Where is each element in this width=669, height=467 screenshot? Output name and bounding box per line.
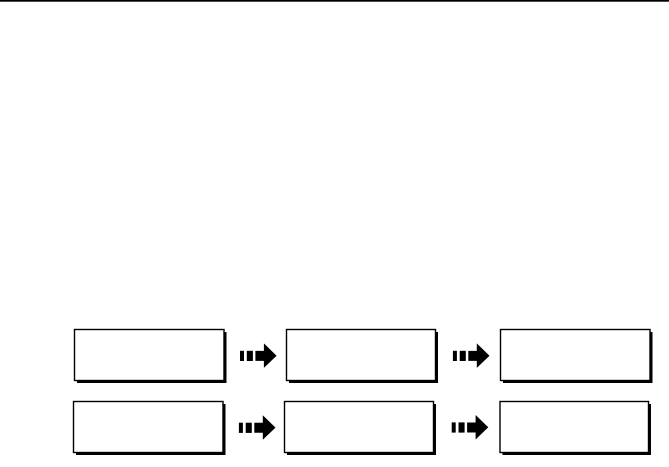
box row1 col3 bbox=[501, 330, 651, 381]
box row2 col1 bbox=[74, 402, 224, 453]
box row1 col2 bbox=[287, 330, 436, 381]
box row2 col3 bbox=[500, 402, 649, 453]
box row2 col2 shadow bbox=[287, 404, 436, 455]
box row1 col3 shadow bbox=[503, 332, 653, 383]
dashed arrow row1 right bbox=[453, 343, 490, 368]
dashed arrow row2 left bbox=[239, 415, 276, 440]
box row1 col1 bbox=[75, 330, 225, 381]
box row2 col2 bbox=[285, 402, 434, 453]
box row1 col2 shadow bbox=[289, 332, 438, 383]
box row2 col3 shadow bbox=[503, 404, 652, 455]
box row1 col1 shadow bbox=[77, 332, 227, 383]
box row2 col1 shadow bbox=[76, 404, 226, 455]
dashed arrow row2 right bbox=[452, 415, 489, 440]
dashed arrow row1 left bbox=[240, 343, 277, 368]
top horizontal rule bbox=[0, 0, 669, 2]
